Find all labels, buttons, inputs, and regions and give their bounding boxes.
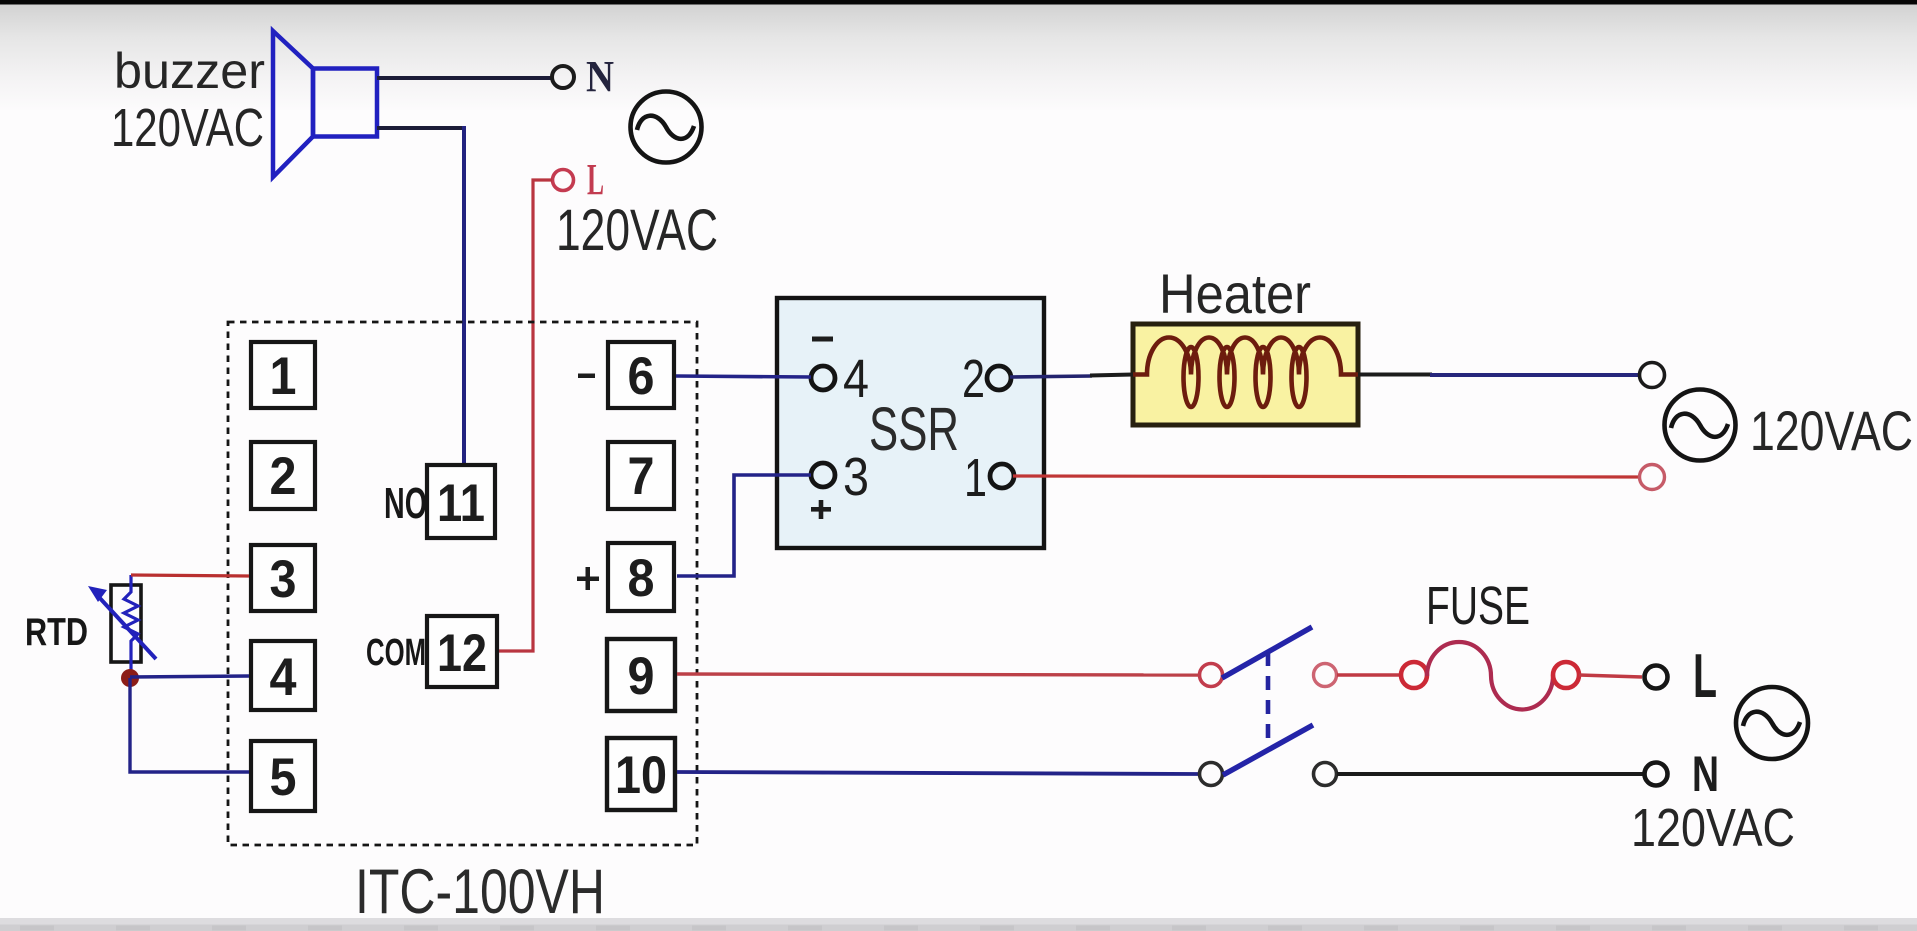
terminal right bottom bbox=[1640, 465, 1665, 490]
SSR pin 1 bbox=[990, 464, 1014, 488]
wire terminal 9 to switch bbox=[677, 674, 1198, 675]
svg-text:120VAC: 120VAC bbox=[1750, 399, 1913, 462]
svg-text:120VAC: 120VAC bbox=[556, 198, 718, 263]
switch S1a lever bbox=[1222, 627, 1312, 678]
svg-text:SSR: SSR bbox=[869, 395, 959, 463]
wire heater to 120VAC right bbox=[1358, 373, 1432, 377]
wire switch to fuse bbox=[1337, 673, 1400, 677]
heater HTR1 bbox=[1133, 324, 1358, 425]
wire switch to N terminal bbox=[1337, 772, 1643, 776]
svg-text:FUSE: FUSE bbox=[1426, 576, 1530, 636]
ITC-100VH controller dashed outline bbox=[228, 322, 697, 845]
wire SSR pin 2 to heater bbox=[1010, 376, 1092, 377]
switch S1b contact right bbox=[1314, 763, 1337, 786]
switch S1b contact left bbox=[1200, 763, 1223, 786]
wire terminal 10 to switch bbox=[677, 772, 1198, 774]
terminal L top bbox=[553, 170, 574, 191]
SSR plus mark bbox=[811, 500, 831, 519]
terminal 8 bbox=[608, 543, 674, 611]
svg-text:1: 1 bbox=[270, 347, 297, 406]
terminal N bottom bbox=[1645, 763, 1668, 786]
svg-text:120VAC: 120VAC bbox=[1631, 798, 1795, 858]
terminal N top bbox=[552, 66, 574, 88]
terminal 11 NO bbox=[427, 465, 495, 538]
wire junction to terminal 5 bbox=[130, 678, 249, 772]
RTD sensor bbox=[88, 575, 156, 672]
wire buzzer to N terminal bbox=[377, 76, 551, 80]
svg-text:N: N bbox=[1692, 746, 1719, 802]
switch S1a contact right bbox=[1314, 664, 1337, 687]
AC source top bbox=[631, 92, 702, 163]
svg-text:6: 6 bbox=[628, 347, 655, 406]
SSR minus mark bbox=[812, 337, 833, 342]
svg-text:11: 11 bbox=[437, 474, 485, 533]
wire fuse to L terminal bbox=[1579, 675, 1642, 677]
svg-text:3: 3 bbox=[270, 550, 297, 609]
svg-text:120VAC: 120VAC bbox=[111, 98, 264, 158]
svg-text:5: 5 bbox=[270, 748, 297, 807]
terminal 1 bbox=[251, 342, 315, 408]
switch S1b lever bbox=[1223, 725, 1313, 775]
wire terminal 6 to SSR pin 4 bbox=[676, 376, 811, 377]
wire SSR pin 1 to 120VAC right bbox=[1013, 476, 1639, 477]
svg-text:9: 9 bbox=[628, 647, 655, 706]
heater coil bbox=[1133, 338, 1358, 407]
terminal 2 bbox=[251, 442, 315, 509]
SSR pin 4 bbox=[811, 366, 835, 390]
svg-text:N: N bbox=[586, 52, 614, 101]
terminal right top bbox=[1640, 363, 1665, 388]
junction node RTD bbox=[121, 669, 139, 687]
terminal 9 bbox=[607, 639, 675, 711]
svg-text:12: 12 bbox=[437, 624, 487, 683]
plus label left of 8 bbox=[577, 567, 599, 590]
svg-text:4: 4 bbox=[843, 349, 869, 409]
wire RTD to terminal 3 bbox=[131, 575, 249, 576]
terminal 12 COM bbox=[427, 616, 497, 687]
svg-text:7: 7 bbox=[628, 447, 655, 506]
AC source bottom bbox=[1736, 687, 1808, 759]
AC source right bbox=[1665, 390, 1736, 461]
wire buzzer to terminal 11 NO bbox=[377, 126, 464, 130]
svg-text:COM: COM bbox=[366, 632, 426, 674]
wire terminal 8 to SSR pin 3 bbox=[677, 475, 811, 576]
svg-text:10: 10 bbox=[615, 746, 667, 805]
SSR U1 bbox=[777, 298, 1044, 548]
switch gang link bbox=[1266, 652, 1271, 742]
svg-text:NO: NO bbox=[384, 479, 427, 528]
terminal 6 bbox=[608, 342, 674, 408]
svg-text:L: L bbox=[587, 155, 604, 204]
wire junction to terminal 4 bbox=[130, 676, 249, 677]
fuse F1 bbox=[1401, 642, 1579, 709]
svg-text:8: 8 bbox=[628, 549, 655, 608]
switch S1a contact left bbox=[1200, 664, 1223, 687]
terminal 4 bbox=[251, 641, 315, 710]
minus label left of 6 bbox=[578, 374, 595, 379]
terminal 5 bbox=[251, 741, 315, 811]
svg-text:3: 3 bbox=[843, 447, 869, 507]
svg-text:4: 4 bbox=[270, 648, 297, 707]
svg-text:L: L bbox=[1693, 642, 1717, 711]
SSR pin 3 bbox=[811, 463, 835, 487]
svg-text:2: 2 bbox=[962, 349, 985, 409]
wire L to terminal 12 COM bbox=[499, 180, 552, 651]
svg-text:2: 2 bbox=[270, 447, 297, 506]
svg-text:ITC-100VH: ITC-100VH bbox=[355, 857, 605, 927]
terminal 10 bbox=[607, 738, 675, 810]
buzzer BZ1 bbox=[273, 31, 377, 177]
terminal 7 bbox=[608, 442, 674, 509]
svg-text:RTD: RTD bbox=[25, 611, 88, 654]
SSR pin 2 bbox=[987, 366, 1011, 390]
terminal L bottom bbox=[1645, 666, 1668, 689]
svg-text:1: 1 bbox=[964, 448, 987, 508]
terminal 3 bbox=[251, 545, 315, 611]
svg-text:buzzer: buzzer bbox=[114, 43, 265, 99]
svg-text:Heater: Heater bbox=[1159, 262, 1311, 325]
